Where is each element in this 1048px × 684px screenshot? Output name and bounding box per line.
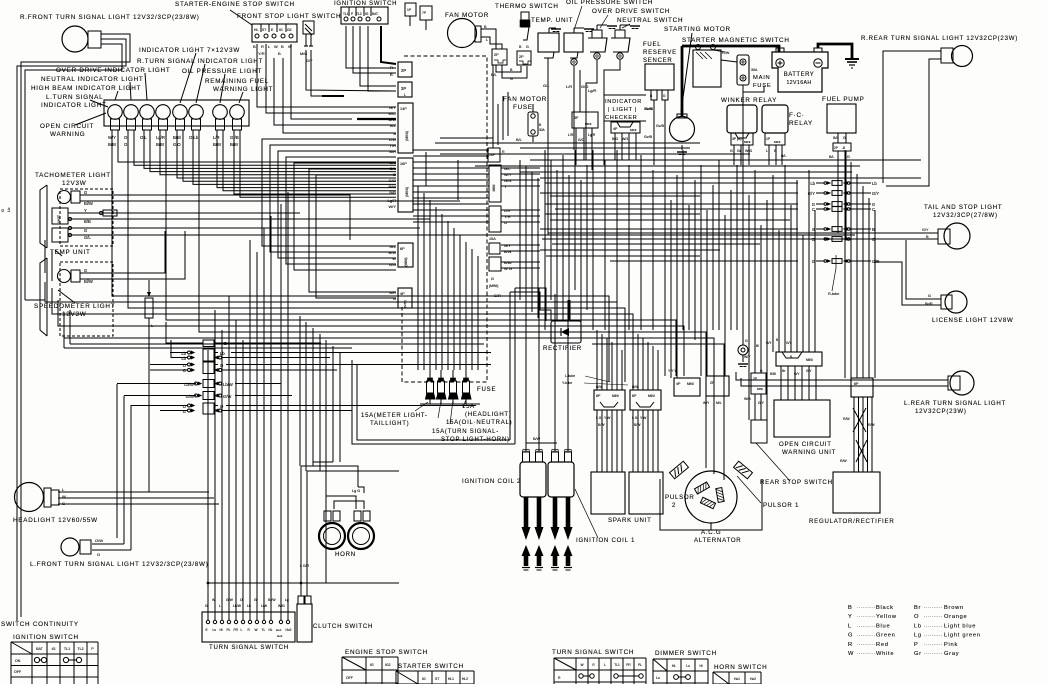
svg-text:TURN SIGNAL SWITCH: TURN SIGNAL SWITCH <box>209 644 289 651</box>
svg-text:2P: 2P <box>401 68 406 73</box>
svg-text:Lb/W: Lb/W <box>223 382 233 387</box>
svg-text:PL: PL <box>638 663 642 667</box>
ignition coil terminal caps <box>523 452 530 462</box>
svg-text:TL1: TL1 <box>343 12 349 16</box>
main fuse wires <box>721 60 737 62</box>
svg-text:L/R: L/R <box>568 133 574 137</box>
svg-text:30A: 30A <box>539 128 546 132</box>
svg-text:12V3W: 12V3W <box>62 180 86 187</box>
svg-text:L: L <box>486 38 488 42</box>
svg-text:TEMP UNIT: TEMP UNIT <box>50 249 91 256</box>
wire rows extensions right <box>255 352 491 354</box>
tachometer sender box <box>52 228 68 242</box>
svg-text:Lb: Lb <box>872 181 877 186</box>
svg-text:IGNITION COIL 1: IGNITION COIL 1 <box>576 537 635 544</box>
svg-text:O Lb: O Lb <box>189 135 199 140</box>
svg-text:CHECKER: CHECKER <box>605 115 638 121</box>
svg-text:MINI: MINI <box>492 185 496 192</box>
svg-text:12V32/3CP(27/8W): 12V32/3CP(27/8W) <box>933 212 998 219</box>
svg-text:O/W: O/W <box>95 538 103 543</box>
alternator frame wires <box>679 450 690 470</box>
svg-text:L-tube: L-tube <box>565 374 575 378</box>
svg-text:B/R: B/R <box>389 190 396 195</box>
svg-text:R: R <box>390 65 393 70</box>
indicator bulbs <box>108 105 123 120</box>
svg-text:B: B <box>393 131 396 136</box>
svg-text:B/W: B/W <box>632 385 639 389</box>
svg-text:STARTER SWITCH: STARTER SWITCH <box>398 663 464 670</box>
rear stop switch <box>751 420 767 443</box>
svg-text:ST: ST <box>435 677 439 681</box>
wires from stop light switch to 14P <box>257 44 396 107</box>
svg-text:W/C: W/C <box>388 111 396 116</box>
svg-text:R/W: R/W <box>843 417 850 421</box>
headlight wires L W G <box>58 491 209 493</box>
svg-text:W/G: W/G <box>278 604 285 608</box>
wire rows to lower-left verticals <box>117 383 196 385</box>
svg-text:MAIN: MAIN <box>753 75 771 81</box>
svg-text:IG2: IG2 <box>385 663 391 667</box>
svg-text:PR: PR <box>234 628 239 632</box>
svg-text:Br/W: Br/W <box>268 598 276 602</box>
wire horizontals upper mid <box>306 59 350 61</box>
svg-text:RELAY: RELAY <box>789 120 813 127</box>
svg-text:··········: ·········· <box>924 651 943 656</box>
svg-text:6P: 6P <box>632 394 637 398</box>
svg-text:HL1: HL1 <box>448 677 454 681</box>
harness U-turn wires to 6P and 4P connectors <box>262 139 396 246</box>
svg-text:R: R <box>502 150 505 154</box>
neutral switch wire <box>604 60 620 140</box>
svg-text:2: 2 <box>672 502 676 509</box>
svg-text:ST: ST <box>262 28 266 32</box>
svg-text:FAN MOTOR: FAN MOTOR <box>445 12 489 19</box>
svg-text:Lb: Lb <box>810 181 815 186</box>
svg-text:ON: ON <box>15 659 21 663</box>
svg-text:2P: 2P <box>519 55 524 59</box>
connector 2P main <box>398 62 412 77</box>
open circuit warning unit <box>774 400 830 437</box>
svg-text:W: W <box>392 256 396 261</box>
ignition table contacts <box>34 657 39 662</box>
svg-text:Red: Red <box>876 642 889 648</box>
svg-text:RECTIFIER: RECTIFIER <box>543 345 582 352</box>
svg-text:Lb/W: Lb/W <box>233 604 242 608</box>
svg-text:FUSE: FUSE <box>753 83 771 89</box>
connector row B single <box>203 340 214 347</box>
svg-text:IG: IG <box>422 677 426 681</box>
svg-text:HL: HL <box>672 664 676 668</box>
svg-text:4P: 4P <box>400 292 405 296</box>
wire right side horizontals <box>868 159 921 161</box>
connector 3P main <box>398 82 412 97</box>
svg-text:15A(OIL·NEUTRAL): 15A(OIL·NEUTRAL) <box>446 420 512 426</box>
svg-text:··········: ·········· <box>924 623 943 628</box>
rectifier <box>551 321 581 343</box>
wire main fuse down feed <box>742 92 744 222</box>
svg-text:REMAINING FUEL: REMAINING FUEL <box>205 78 269 85</box>
svg-text:G: G <box>928 294 931 298</box>
svg-text:W: W <box>848 651 854 657</box>
svg-text:G: G <box>847 155 850 159</box>
open circuit unit wires <box>780 366 782 400</box>
tacho wire Bl/W <box>80 200 460 202</box>
svg-text:FUEL PUMP: FUEL PUMP <box>822 96 865 103</box>
svg-text:L: L <box>848 623 852 629</box>
svg-text:Hi: Hi <box>699 664 702 668</box>
svg-text:-B: -B <box>842 146 845 150</box>
svg-text:WINKER RELAY: WINKER RELAY <box>721 97 777 104</box>
svg-text:SWITCH CONTINUITY: SWITCH CONTINUITY <box>1 621 79 628</box>
wire 3P mini switches connector <box>572 112 598 128</box>
wire funnel to fuses <box>429 370 431 378</box>
svg-text:G: G <box>491 277 494 281</box>
svg-text:HL: HL <box>254 28 258 32</box>
svg-text:2P: 2P <box>834 146 838 150</box>
svg-text:6P: 6P <box>400 247 405 251</box>
turn signal switch <box>202 612 295 642</box>
battery ground thick wire <box>818 44 852 58</box>
svg-text:B/Bl: B/Bl <box>770 372 776 376</box>
svg-text:SPARK UNIT: SPARK UNIT <box>608 517 652 524</box>
svg-text:TL: TL <box>262 628 266 632</box>
svg-text:IG: IG <box>365 12 369 16</box>
svg-text:FUSE: FUSE <box>513 104 533 111</box>
svg-text:OFF: OFF <box>14 670 22 674</box>
svg-text:B/L: B/L <box>491 73 497 77</box>
wire verticals inside harness area <box>417 186 419 370</box>
svg-text:G: G <box>848 633 853 639</box>
svg-text:15A(TURN SIGNAL-: 15A(TURN SIGNAL- <box>432 429 499 435</box>
svg-text:2P: 2P <box>753 377 758 381</box>
svg-text:Light blue: Light blue <box>944 623 976 629</box>
svg-text:INDICATOR: INDICATOR <box>605 99 642 105</box>
svg-text:Lg/R: Lg/R <box>388 198 397 203</box>
svg-text:W: W <box>255 628 258 632</box>
svg-text:TL1: TL1 <box>614 663 620 667</box>
wire stack-right crossing verticals <box>492 100 494 148</box>
bolt with ground <box>738 345 748 355</box>
svg-text:G/W: G/W <box>186 394 194 399</box>
svg-text:MINI: MINI <box>612 394 619 398</box>
indicator checker wires <box>614 133 616 160</box>
svg-text:R.FRONT TURN SIGNAL LIGHT 12V3: R.FRONT TURN SIGNAL LIGHT 12V32/3CP(23/8… <box>20 14 200 21</box>
svg-text:L: L <box>766 149 768 153</box>
license light wires <box>906 240 941 299</box>
R rear signal wires <box>883 51 941 183</box>
svg-text:L.REAR TURN SIGNAL LIGHT: L.REAR TURN SIGNAL LIGHT <box>904 400 1006 407</box>
svg-text:G2: G2 <box>287 28 292 32</box>
svg-text:Lb: Lb <box>220 351 225 356</box>
wire verticals center mid <box>299 316 301 466</box>
clutch switch wires <box>300 466 302 596</box>
svg-text:NEUTRAL SWITCH: NEUTRAL SWITCH <box>617 17 683 24</box>
svg-text:G/L: G/L <box>84 235 91 240</box>
svg-text:L/R: L/R <box>566 84 572 89</box>
wire right verticals to regulator <box>844 150 846 378</box>
alternator 4P connector <box>674 378 700 396</box>
svg-text:PULSOR 1: PULSOR 1 <box>763 502 799 509</box>
svg-text:··········: ·········· <box>924 614 943 619</box>
indicator checker 4P connector <box>611 122 640 133</box>
svg-text:W/Y: W/Y <box>703 401 710 405</box>
ignition switch connector <box>341 7 388 24</box>
svg-text:IGNITION SWITCH: IGNITION SWITCH <box>13 634 79 641</box>
svg-text:··········: ·········· <box>857 605 876 610</box>
svg-text:MINI: MINI <box>687 382 694 386</box>
resistor in meter circuit <box>148 280 150 296</box>
regulator rectifier <box>833 472 880 513</box>
svg-text:Lb: Lb <box>6 207 11 212</box>
svg-text:HORN: HORN <box>335 551 356 558</box>
speedo wire Bl/W <box>80 231 185 279</box>
wires from left edge joining cascade bus <box>45 282 543 302</box>
svg-text:TL1: TL1 <box>64 647 70 651</box>
acg alternator <box>685 471 737 523</box>
svg-text:G/Y: G/Y <box>922 228 929 232</box>
svg-text:IG: IG <box>370 663 374 667</box>
svg-text:MINI: MINI <box>585 122 591 126</box>
svg-text:R.TURN SIGNAL INDICATOR LIGHT: R.TURN SIGNAL INDICATOR LIGHT <box>137 58 263 65</box>
wire bus stack to right stubs <box>413 149 489 151</box>
svg-text:SENCER: SENCER <box>643 58 673 64</box>
headlight lamp <box>15 483 44 512</box>
battery ground symbol <box>845 58 859 60</box>
svg-text:R: R <box>848 642 853 648</box>
svg-text:MINI: MINI <box>806 358 813 362</box>
pulsor 1 <box>734 461 753 479</box>
tail light wires <box>908 232 938 234</box>
thermo-fan wires <box>496 65 521 72</box>
svg-text:Ho2: Ho2 <box>286 628 292 632</box>
spark unit wires <box>596 382 598 390</box>
svg-text:OPEN CIRCUIT: OPEN CIRCUIT <box>40 123 94 130</box>
tachometer panel bracket <box>40 185 47 248</box>
horn <box>319 523 345 549</box>
svg-text:B/B: B/B <box>84 219 91 224</box>
svg-text:··········: ·········· <box>857 623 876 628</box>
L rear signal wires <box>736 372 948 380</box>
svg-text:Green: Green <box>876 633 896 639</box>
svg-text:DIMMER SWITCH: DIMMER SWITCH <box>655 650 717 657</box>
wire frame to rectifier <box>515 288 546 321</box>
svg-text:B/W: B/W <box>388 250 396 255</box>
wire nested corner cascade <box>536 296 609 382</box>
svg-text:| LIGHT |: | LIGHT | <box>608 107 637 113</box>
svg-text:W/1: W/1 <box>622 137 628 141</box>
svg-text:G/R: G/R <box>494 294 501 298</box>
svg-text:IG: IG <box>52 647 56 651</box>
svg-text:G/O: G/O <box>389 178 396 183</box>
svg-text:G/Y: G/Y <box>306 59 313 63</box>
svg-text:STARTER-ENGINE STOP SWITCH: STARTER-ENGINE STOP SWITCH <box>175 1 295 8</box>
tachometer bulb <box>58 191 71 204</box>
svg-text:B/W: B/W <box>388 184 396 189</box>
svg-text:R: R <box>261 44 264 49</box>
svg-text:Blue: Blue <box>876 623 890 629</box>
svg-text:Lg G: Lg G <box>352 489 360 493</box>
svg-text:B/W: B/W <box>634 423 641 427</box>
svg-text:IGNITION COIL 2: IGNITION COIL 2 <box>462 478 521 485</box>
svg-text:HORN SWITCH: HORN SWITCH <box>714 664 767 671</box>
svg-text:(MINI): (MINI) <box>489 284 498 288</box>
wires from indicator bulbs right into connector stack <box>118 130 396 162</box>
svg-text:P: P <box>351 12 353 16</box>
fuel sencer wires <box>653 100 655 160</box>
svg-text:W: W <box>62 494 66 499</box>
svg-text:TAIL AND STOP LIGHT: TAIL AND STOP LIGHT <box>924 204 1002 211</box>
svg-text:Pink: Pink <box>944 642 958 648</box>
ignition switch wires to 2P 3P connectors <box>346 26 396 68</box>
speedometer dashed housing <box>60 262 113 336</box>
svg-text:BAT: BAT <box>36 647 44 651</box>
svg-text:G/W: G/W <box>226 598 234 602</box>
svg-text:4P: 4P <box>676 382 681 386</box>
svg-text:L.TURN SIGNAL: L.TURN SIGNAL <box>46 94 103 101</box>
fan motor wires <box>481 29 496 49</box>
svg-text:30A: 30A <box>751 68 758 72</box>
fan motor feed wire B/L <box>440 65 493 138</box>
harness dashed outline <box>402 56 487 382</box>
svg-text:Gr: Gr <box>914 651 922 657</box>
battery <box>772 52 828 92</box>
svg-text:TURN SIGNAL SWITCH: TURN SIGNAL SWITCH <box>552 649 634 656</box>
svg-text:Hi: Hi <box>220 628 223 632</box>
svg-text:W/Y: W/Y <box>388 204 396 209</box>
svg-text:Ho1: Ho1 <box>277 634 283 638</box>
svg-text:MINI: MINI <box>648 394 655 398</box>
svg-text:ENGINE STOP SWITCH: ENGINE STOP SWITCH <box>345 649 428 656</box>
svg-text:L: L <box>241 628 243 632</box>
wire long horizontals left lower <box>70 343 484 345</box>
front stop light switch connector <box>252 24 297 42</box>
svg-text:PULSOR: PULSOR <box>665 494 695 501</box>
svg-text:Gv/B: Gv/B <box>644 135 653 139</box>
svg-text:HL2: HL2 <box>462 677 468 681</box>
turn signal switch wires up <box>207 492 209 612</box>
connector 16P mini <box>398 158 413 212</box>
ignition coil 1 body <box>548 462 574 497</box>
main fuse <box>737 55 749 85</box>
svg-text:B: B <box>776 338 778 342</box>
winker relay wires <box>733 145 735 165</box>
connector 7P top <box>420 6 432 20</box>
svg-text:B/R: B/R <box>389 149 396 154</box>
svg-text:B: B <box>253 44 256 49</box>
svg-text:OPEN CIRCUIT: OPEN CIRCUIT <box>779 441 832 448</box>
svg-text:B: B <box>390 72 393 77</box>
tacho wire G <box>80 195 350 240</box>
leader lines to indicator bulbs <box>180 53 196 103</box>
svg-text:1P: 1P <box>407 8 412 12</box>
svg-text:L: L <box>219 604 221 608</box>
connector 1P top <box>405 3 416 16</box>
svg-text:W: W <box>274 44 278 49</box>
svg-text:LICENSE LIGHT 12V8W: LICENSE LIGHT 12V8W <box>932 317 1014 324</box>
svg-text:OIL PRESSURE SWITCH: OIL PRESSURE SWITCH <box>566 0 653 6</box>
svg-text:Br: Br <box>914 605 921 611</box>
svg-text:B/W: B/W <box>598 423 605 427</box>
temp unit wire G/L <box>547 58 549 235</box>
wire center-right verticals mesh <box>544 150 546 330</box>
svg-text:L/R: L/R <box>213 135 220 140</box>
wire verticals feeding bottom switches <box>207 350 209 583</box>
svg-text:15A: 15A <box>489 237 496 241</box>
svg-text:G/B: G/B <box>389 160 396 165</box>
fuse leader lines <box>415 402 428 411</box>
svg-text:L: L <box>404 93 406 97</box>
svg-text:O: O <box>914 614 919 620</box>
svg-text:Lo: Lo <box>686 664 690 668</box>
svg-text:4P: 4P <box>613 127 618 131</box>
svg-text:Brown: Brown <box>944 605 964 611</box>
svg-text:B: B <box>848 605 853 611</box>
svg-text:OIL PRESSURE LIGHT: OIL PRESSURE LIGHT <box>182 68 262 75</box>
svg-text:UNIT: UNIT <box>57 214 61 223</box>
svg-text:Bl/W: Bl/W <box>84 279 93 284</box>
svg-text:G: G <box>745 339 748 343</box>
regulator wires <box>853 397 855 472</box>
wires from engine stop switch <box>306 50 396 91</box>
svg-text:HIGH BEAM INDICATOR LIGHT: HIGH BEAM INDICATOR LIGHT <box>31 85 141 92</box>
svg-text:L G/R: L G/R <box>300 564 310 568</box>
svg-text:12V16AH: 12V16AH <box>786 80 811 86</box>
oil switch wire <box>573 66 575 140</box>
speedo wire G <box>80 231 165 273</box>
svg-text:B: B <box>650 94 652 98</box>
svg-text:12V32CP(23W): 12V32CP(23W) <box>915 408 967 415</box>
svg-text:Ho1: Ho1 <box>276 628 282 632</box>
bold B/W wire segments <box>322 95 344 97</box>
svg-text:(MINI): (MINI) <box>405 187 409 197</box>
svg-text:B/L: B/L <box>390 123 397 128</box>
connector 14P mini <box>398 103 413 153</box>
svg-text:W/Y: W/Y <box>744 355 751 359</box>
svg-text:Gv/B: Gv/B <box>656 124 665 128</box>
svg-text:R-tube: R-tube <box>828 292 839 296</box>
spark unit 6P connectors <box>594 390 625 410</box>
svg-text:Lo: Lo <box>213 628 217 632</box>
svg-text:RESERVE: RESERVE <box>643 50 677 56</box>
svg-text:TL2: TL2 <box>356 12 362 16</box>
svg-text:··········: ·········· <box>857 614 876 619</box>
svg-text:FUEL: FUEL <box>643 42 661 48</box>
svg-text:WARNING: WARNING <box>50 131 85 138</box>
svg-text:Gray: Gray <box>944 651 959 657</box>
spark plugs up arrows <box>522 545 531 556</box>
battery feed thick wire <box>682 46 779 52</box>
svg-text:Lg: Lg <box>914 633 922 639</box>
svg-text:B/W: B/W <box>596 385 603 389</box>
svg-text:BATTERY: BATTERY <box>784 72 815 78</box>
svg-text:G/L: G/L <box>390 244 397 249</box>
svg-text:THERMO SWITCH: THERMO SWITCH <box>495 3 559 10</box>
svg-text:SPEEDOMETER LIGHT: SPEEDOMETER LIGHT <box>34 303 115 310</box>
svg-text:··········: ·········· <box>924 605 943 610</box>
svg-text:··········: ·········· <box>924 633 943 638</box>
svg-text:HL: HL <box>269 628 273 632</box>
collector line turn signal <box>208 582 399 584</box>
svg-text:M/L: M/L <box>716 401 722 405</box>
temp unit ground <box>548 28 550 33</box>
wire verticals lower left <box>116 384 118 538</box>
svg-text:3P: 3P <box>401 86 406 91</box>
svg-text:Yellow: Yellow <box>876 614 897 620</box>
svg-text:(MINI): (MINI) <box>404 258 408 267</box>
fuel pump connector <box>833 143 851 151</box>
svg-text:6P: 6P <box>854 382 859 386</box>
speedometer panel bracket <box>40 258 47 336</box>
